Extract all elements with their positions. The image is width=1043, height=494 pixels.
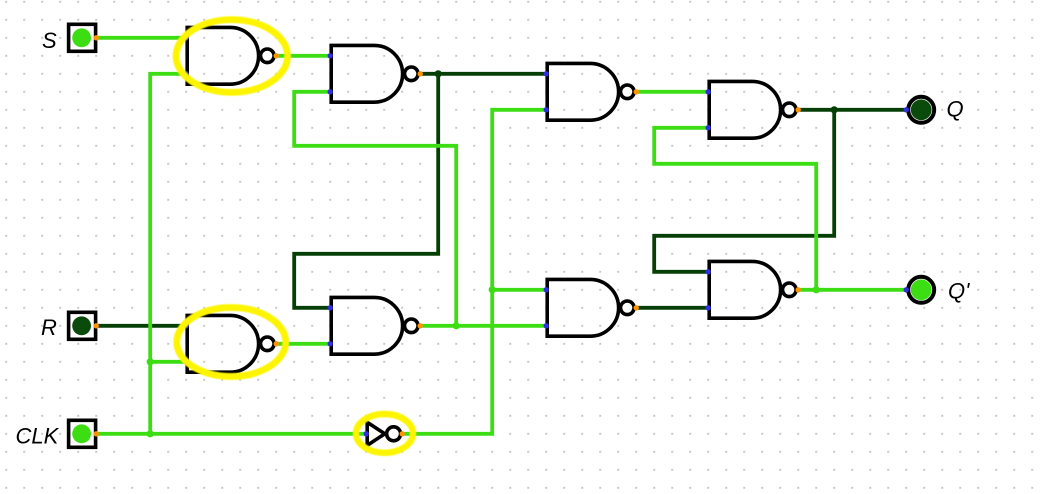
svg-text:S: S [42,28,57,53]
svg-text:Q': Q' [948,278,970,303]
svg-text:R: R [41,315,57,340]
svg-text:Q: Q [947,97,964,122]
svg-text:CLK: CLK [16,424,60,449]
